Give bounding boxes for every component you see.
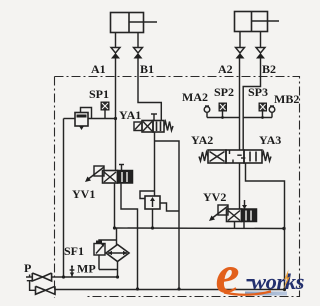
ball valve T1	[36, 286, 56, 294]
wire YA1 tank branch	[155, 141, 180, 228]
solenoid valve YV1	[85, 165, 133, 184]
svg-text:P: P	[24, 261, 31, 275]
svg-text:MA2: MA2	[182, 90, 208, 104]
measuring port MP	[70, 265, 75, 277]
svg-text:YV1: YV1	[72, 187, 95, 201]
svg-text:SF1: SF1	[64, 244, 84, 258]
solenoid valve YA1	[134, 114, 173, 132]
wire B1 lower with jog to YA1	[138, 59, 161, 122]
node manifold-YV1	[113, 226, 116, 229]
solenoid valve YV2	[209, 200, 257, 222]
svg-text:B2: B2	[262, 62, 276, 76]
cylinder CYL1	[111, 13, 158, 33]
svg-text:B1: B1	[140, 62, 154, 76]
svg-text:e: e	[216, 245, 240, 305]
svg-text:MB2: MB2	[274, 92, 299, 106]
shutoff valve on A1	[111, 48, 120, 59]
relief valve RV2	[140, 191, 179, 228]
wire filter riser	[116, 228, 118, 245]
wire SP3-MB2 tap	[243, 117, 272, 119]
node T-YV1	[136, 287, 139, 290]
pressure switch SP3	[259, 103, 267, 118]
wire YV1 outlet to manifold	[114, 183, 116, 228]
wire SF1 branch top	[99, 240, 117, 244]
svg-text:works: works	[251, 269, 305, 294]
solenoid valve YA2/YA3	[199, 150, 271, 163]
watermark e-works	[216, 245, 305, 305]
wire A1 upper	[115, 33, 117, 48]
node filter-P junction	[116, 275, 119, 278]
shutoff valve on B1	[134, 48, 143, 59]
svg-text:SP2: SP2	[214, 85, 234, 99]
wire T return line	[55, 289, 285, 291]
enclosure dash-dot border	[55, 77, 300, 299]
measuring port MA2	[204, 106, 210, 118]
node RV1-A1 junction	[114, 117, 117, 120]
svg-text:YA3: YA3	[259, 133, 281, 147]
node manifold-tank-right	[282, 227, 285, 230]
cylinder CYL2	[235, 12, 280, 32]
svg-text:YA1: YA1	[119, 108, 141, 122]
wire YV2 bottom loop to manifold	[235, 222, 245, 229]
wire YA2 B-port to tank	[246, 163, 285, 290]
wire P to T tie	[27, 275, 36, 291]
shutoff valve on A2	[236, 48, 245, 59]
filter F1 diamond	[106, 245, 129, 262]
node tap-SP3	[261, 116, 264, 119]
wire B2 upper	[260, 32, 262, 48]
pressure switch SP2	[219, 103, 227, 118]
wire YV1 tank to T	[121, 183, 138, 289]
svg-text:YA2: YA2	[191, 133, 213, 147]
ball valve P1	[26, 273, 64, 281]
wire YA1 outlet down	[154, 132, 156, 196]
shutoff valve on B2	[256, 48, 265, 59]
wire B1 upper	[137, 33, 139, 48]
wire A2 upper	[239, 32, 241, 48]
svg-text:MP: MP	[77, 262, 96, 276]
wire YA2 A-port down	[239, 163, 241, 209]
wire B2 lower with jog	[243, 59, 260, 151]
manifold line	[115, 227, 285, 230]
node tap-A2	[221, 116, 224, 119]
relief valve RV1	[64, 108, 116, 131]
flow switch SF1	[94, 241, 105, 270]
wire RV2 tank drop to T	[178, 228, 180, 289]
pressure switch SP1	[101, 102, 109, 118]
svg-text:A2: A2	[218, 62, 233, 76]
node T-right	[283, 288, 286, 291]
node T-RV2	[177, 287, 180, 290]
wire pump riser P to RV1	[63, 119, 65, 278]
wire MA2-SP2 tap	[207, 117, 240, 119]
wire P supply line	[64, 276, 118, 278]
svg-text:YV2: YV2	[203, 190, 226, 204]
node P-riser	[62, 275, 65, 278]
svg-text:SP3: SP3	[248, 85, 268, 99]
wire A2 lower	[239, 59, 241, 151]
svg-text:A1: A1	[91, 62, 106, 76]
wire A1 lower	[115, 59, 117, 172]
svg-text:SP1: SP1	[89, 87, 109, 101]
wire filter bottom loop	[99, 262, 118, 278]
measuring port MB2	[269, 106, 275, 118]
node manifold-RV2	[151, 226, 154, 229]
